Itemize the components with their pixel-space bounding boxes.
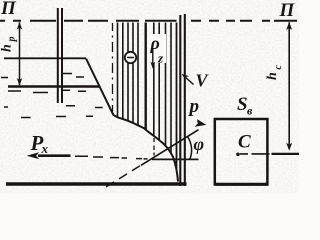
resultant p line (solid) and arrowhead — [141, 130, 199, 166]
box S_v — [215, 119, 268, 185]
svg-text:V: V — [196, 71, 210, 91]
svg-text:x: x — [41, 141, 49, 156]
piezometric line P-P (dashed, y=20.8) — [0, 20, 297, 22]
svg-text:z: z — [157, 51, 164, 66]
horizontal centroid axis (dash-dot) — [75, 156, 199, 159]
h_c dimension vertical — [288, 22, 290, 147]
C horizontal axis line — [240, 153, 270, 155]
minus sign in circle (vacuum zone) — [125, 52, 136, 63]
paper grain — [0, 0, 299, 193]
P_x arrow (thick, pointing left) — [38, 154, 71, 157]
V leader arrow — [184, 76, 194, 85]
svg-text:φ: φ — [194, 134, 205, 154]
svg-text:П: П — [279, 0, 296, 21]
svg-text:в: в — [247, 104, 253, 118]
vertical dash-dot through centroid — [153, 138, 155, 156]
svg-text:S: S — [237, 94, 248, 115]
h_p arrowhead down — [17, 78, 22, 86]
svg-text:c: c — [273, 65, 284, 70]
dam curved face (spillway crest) — [112, 113, 178, 182]
rho_z down arrow — [152, 48, 154, 66]
hatched pressure diagram (vertical hatching) — [118, 23, 177, 170]
svg-text:p: p — [188, 96, 200, 117]
svg-text:h: h — [0, 44, 15, 52]
ground baseline — [6, 182, 187, 185]
vertical dash-dot axis at crest — [112, 23, 114, 114]
dam upstream slope — [86, 59, 112, 113]
falling jet (two vertical lines) — [179, 15, 181, 186]
upstream water surface line y=58.3 — [4, 57, 86, 59]
halo behind rho_z — [149, 34, 166, 63]
label h_p (rotated) — [0, 37, 18, 53]
svg-text:p: p — [7, 37, 18, 43]
lower water surface (thick) y=86.5 — [8, 85, 99, 87]
svg-text:C: C — [238, 132, 251, 153]
svg-text:h: h — [265, 72, 280, 80]
dimension h_p vertical line — [19, 22, 21, 85]
piezometer tube (double vertical) — [58, 8, 62, 103]
svg-text:П: П — [0, 0, 17, 19]
centroid dot — [236, 153, 240, 157]
h_p arrowhead up — [17, 22, 22, 30]
resultant p line (dashed lower part) — [106, 166, 140, 187]
angle arc phi — [188, 137, 192, 159]
water texture dashes — [1, 74, 103, 118]
label h_c (rotated) — [265, 65, 284, 81]
